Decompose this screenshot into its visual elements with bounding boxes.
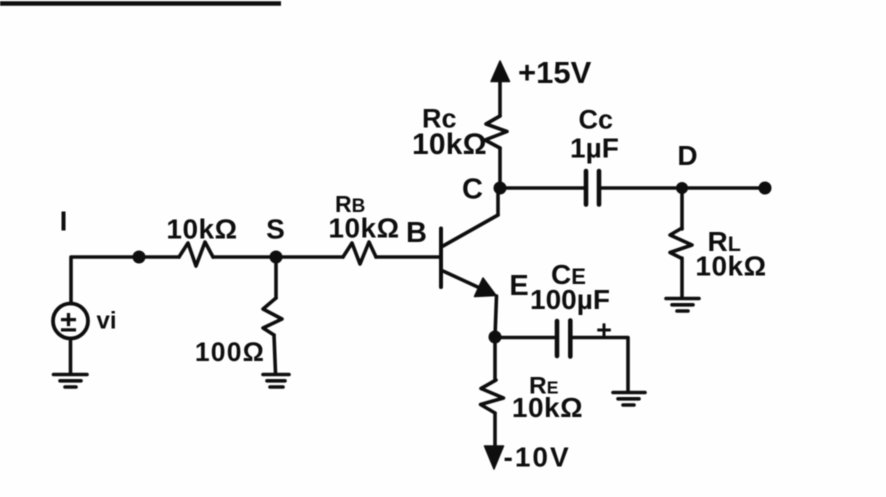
ground under RL <box>666 299 699 312</box>
resistor RL 10k ohm <box>670 228 692 258</box>
svg-text:100Ω: 100Ω <box>195 337 265 367</box>
svg-text:10kΩ: 10kΩ <box>328 213 399 244</box>
wire 100 ohm to ground <box>274 335 276 373</box>
wire RL to ground <box>680 258 684 297</box>
resistor RE 10k ohm <box>481 380 504 413</box>
wire node S down to 100 ohm resistor <box>274 257 278 298</box>
node S <box>270 251 283 264</box>
svg-text:vi: vi <box>97 308 117 335</box>
svg-text:E: E <box>509 270 528 302</box>
output wire and terminal <box>682 186 765 190</box>
wire resistor to node S <box>213 255 343 259</box>
svg-text:-10V: -10V <box>504 442 571 473</box>
wire node C to capacitor CC <box>500 186 584 190</box>
wire RC up to +15V arrow <box>498 80 502 116</box>
+15V supply arrow <box>491 61 510 82</box>
svg-text:10kΩ: 10kΩ <box>695 251 766 282</box>
svg-text:100µF: 100µF <box>530 284 610 315</box>
resistor RB 10k ohm <box>343 242 376 264</box>
wire CE to ground <box>573 338 629 392</box>
svg-text:S: S <box>266 214 285 245</box>
wire input top-left corner to junction <box>71 257 179 303</box>
emitter junction dot <box>489 331 502 344</box>
emitter wire to node E junction <box>495 296 497 337</box>
wire node D down to RL <box>680 188 684 229</box>
capacitor CC 1uF <box>586 171 599 205</box>
partial top border line <box>0 1 281 6</box>
svg-text:10kΩ: 10kΩ <box>512 392 583 423</box>
wire source to ground <box>69 339 73 374</box>
source vi <box>53 304 117 339</box>
wire CC to node D <box>601 186 682 190</box>
transistor Q1 NPN <box>441 215 498 297</box>
svg-text:B: B <box>406 217 427 249</box>
junction dot on input wire <box>133 251 146 264</box>
collector wire up to node C <box>496 188 500 215</box>
wire RE down to -10V arrow <box>493 413 497 447</box>
wire RB to transistor base <box>376 255 441 259</box>
svg-text:+: + <box>596 315 612 345</box>
svg-text:D: D <box>677 140 697 171</box>
wire node C up to RC <box>498 148 502 188</box>
svg-text:+15V: +15V <box>518 55 592 90</box>
resistor 10k ohm (input) <box>179 242 213 266</box>
capacitor CE 100uF <box>557 321 570 357</box>
ground under CE <box>613 393 645 406</box>
resistor RC 10k ohm <box>485 116 507 148</box>
svg-text:±: ± <box>60 306 76 339</box>
node C <box>494 182 507 195</box>
ground under 100 ohm <box>263 375 289 388</box>
svg-text:1µF: 1µF <box>570 133 619 164</box>
svg-text:10kΩ: 10kΩ <box>166 214 237 245</box>
-10V supply arrow <box>485 446 504 469</box>
svg-text:10kΩ: 10kΩ <box>412 128 487 161</box>
resistor 100 ohm <box>263 298 282 335</box>
svg-text:Cc: Cc <box>579 105 614 135</box>
wire junction down to RE <box>493 337 497 380</box>
ground under source <box>54 375 88 388</box>
svg-text:I: I <box>60 206 68 237</box>
svg-text:C: C <box>462 174 483 206</box>
wire junction to capacitor CE <box>495 336 554 340</box>
node D <box>676 182 688 194</box>
